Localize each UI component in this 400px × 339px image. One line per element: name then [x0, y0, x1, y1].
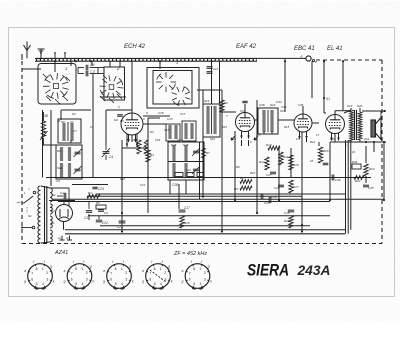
resistor R1	[87, 194, 100, 198]
resistor R2	[220, 100, 224, 112]
earth/ground terminal	[40, 49, 42, 58]
capacitor C46	[331, 175, 333, 181]
tuning wafer A (rotary switch)	[62, 88, 68, 90]
trimmer capacitor C19	[193, 150, 199, 152]
switch contact strokes	[46, 96, 51, 101]
wire: border to tuner box	[22, 68, 41, 70]
pilot lamp e	[306, 56, 311, 61]
resistor R18	[289, 216, 293, 228]
wire: rail y184.5	[72, 184, 108, 186]
IF transformer 1 upper section	[58, 119, 81, 143]
capacitor C13 on IFT2 feed	[207, 66, 213, 68]
trimmer capacitor C8	[75, 168, 81, 170]
wire: EAF42 grid cap stub	[244, 104, 246, 113]
wire: bus to pilot lamp	[257, 57, 306, 59]
wire: rail y201.5	[58, 201, 330, 203]
tube socket EAF42 pinout	[67, 264, 92, 289]
capacitor C1	[88, 202, 90, 209]
wire: ECH42 pin leads	[126, 134, 128, 147]
capacitor C25	[117, 114, 123, 116]
tube ECH42	[121, 113, 143, 135]
resistor R4	[146, 150, 150, 162]
dashed chassis enclosure bottom border	[22, 243, 382, 245]
trimmer capacitor C7	[75, 151, 81, 153]
terminal stubs on bus	[54, 54, 56, 59]
input tuner box A	[38, 64, 76, 105]
junction dots	[147, 176, 149, 178]
tube EBC41	[294, 114, 312, 132]
resistor R13	[268, 146, 280, 150]
tube socket ECH42 pinout	[28, 264, 53, 289]
resistor R23	[364, 164, 368, 176]
IF transformer 1 lower section with trimmers	[56, 145, 82, 179]
antenna	[26, 51, 28, 59]
fuse/switch S1	[26, 207, 28, 213]
wire: rail y215.8	[88, 215, 330, 217]
oscillator switch wafer D (rotary)	[185, 98, 190, 100]
page frame	[9, 28, 395, 297]
band switch wafer B (rotary)	[118, 87, 124, 90]
resistor 38	[43, 112, 45, 121]
capacitor C12	[57, 195, 63, 197]
wire: rail y142 top of AF section	[330, 141, 386, 143]
wire: rail y194	[96, 193, 345, 195]
capacitor C2	[78, 73, 84, 75]
component box R24	[352, 164, 361, 169]
output transformer	[350, 110, 354, 141]
dashed chassis enclosure right border	[381, 60, 383, 244]
lamp terminals 41 42	[61, 236, 63, 241]
wire: rail y199.2	[52, 198, 384, 200]
capacitor C19b	[268, 197, 270, 203]
tuner box B	[104, 67, 125, 100]
wire: horizontal interconnects	[61, 109, 91, 111]
oscillator switch wafer C (rotary)	[171, 81, 177, 83]
oscillator coil box 2	[182, 121, 196, 141]
osc assembly divider	[168, 161, 204, 163]
capacitor C18	[288, 209, 294, 211]
resistor R17	[289, 180, 293, 193]
resistor R8	[240, 180, 252, 184]
oscillator switch box outer	[147, 68, 199, 109]
resistor R6b block	[197, 173, 203, 177]
oscillator switch box inner	[153, 71, 192, 105]
wire: EBC41 grid cap stub	[302, 106, 304, 114]
wire: AZ41 cathode down	[63, 222, 65, 230]
resistor R11	[279, 152, 283, 165]
resistor R4 vertical	[137, 140, 141, 154]
resistor R14	[265, 157, 269, 170]
tube AZ41	[56, 205, 73, 222]
wire: HT secondary to AZ41	[49, 187, 69, 189]
resistor R9	[240, 186, 252, 190]
wire: tuner internal	[77, 68, 79, 74]
dashed chassis enclosure top-right border	[316, 59, 382, 61]
oscillator coil box 1	[166, 124, 180, 141]
wire: EL41 plate link y111	[343, 110, 351, 112]
wire: chassis rail double	[65, 229, 345, 231]
loudspeaker	[371, 120, 376, 137]
tube EL41	[326, 115, 345, 134]
tube socket EL41 pinout	[146, 264, 171, 289]
wire: ECH42 anode link	[143, 115, 170, 117]
tube socket EBC41 pinout	[107, 264, 132, 289]
wire: rail y225.8	[100, 225, 310, 227]
resistor R6 vertical	[144, 140, 148, 154]
resistor R16	[289, 155, 293, 170]
wire: rail y177	[46, 177, 371, 179]
tube socket AZ41 pinout	[185, 264, 210, 289]
capacitor C31 block	[187, 173, 194, 177]
capacitor C41	[323, 162, 329, 164]
wire: vertical interconnects	[42, 110, 44, 178]
resistor R22	[354, 176, 364, 180]
capacitor C1 1M	[78, 67, 84, 69]
IF transformer 2	[203, 104, 220, 137]
wire: top supply bus	[35, 57, 257, 59]
capacitor C23	[119, 220, 126, 222]
label S1 node	[323, 97, 325, 99]
resistor R5 + capacitor C3	[96, 205, 106, 209]
capacitor C28	[278, 184, 284, 186]
resistor R7 on feed	[202, 148, 206, 158]
trimmer capacitor C4	[105, 145, 107, 150]
oscillator coil assembly with trimmers	[168, 142, 204, 180]
detector diode arrows	[231, 136, 235, 140]
resistor R20	[318, 147, 322, 163]
trimmer capacitor C20	[193, 168, 199, 170]
resistor R19	[180, 216, 184, 228]
wire: rail y196.3	[87, 195, 302, 197]
capacitor C29	[260, 194, 262, 200]
resistor R10 block	[175, 173, 183, 177]
capacitor C22	[98, 216, 100, 219]
dashed chassis enclosure left border	[21, 54, 23, 244]
tube EAF42	[236, 113, 255, 132]
capacitor C17	[179, 209, 186, 211]
power transformer T1	[38, 186, 41, 243]
capacitor C27	[270, 171, 276, 173]
capacitor C45	[363, 184, 369, 186]
wire: EL41 plate to transformer	[334, 111, 336, 115]
IF transformer 3	[258, 108, 278, 134]
